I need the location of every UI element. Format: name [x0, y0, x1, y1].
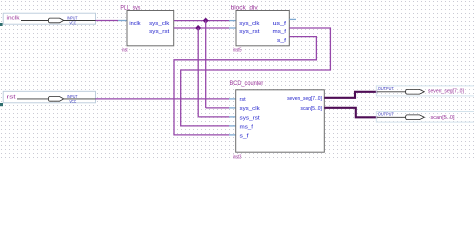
wire net sys_rst vertical drop — [197, 28, 199, 117]
stub PLL inclk — [118, 20, 127, 22]
svg-text:BCD_counter: BCD_counter — [230, 80, 264, 87]
wire net sys_clk vertical drop — [205, 21, 207, 108]
wire sys_rst into BCD — [198, 116, 229, 118]
svg-text:s_f: s_f — [240, 133, 250, 139]
svg-text:inst3: inst3 — [233, 154, 242, 160]
block BCD_counter U3 — [230, 80, 325, 160]
svg-text:inclk: inclk — [129, 21, 140, 27]
wire net ms_f — [181, 28, 331, 126]
svg-text:inst: inst — [122, 47, 128, 53]
svg-text:VCC: VCC — [69, 99, 76, 104]
svg-text:sys_rst: sys_rst — [239, 29, 260, 35]
wire net sys_rst horizontal — [174, 27, 229, 29]
wire sys_clk into BCD — [206, 107, 229, 109]
junction node sys_clk — [203, 18, 209, 24]
bus net seven_seg[7..0] — [324, 92, 377, 98]
svg-text:inst5: inst5 — [233, 47, 242, 53]
block PLL_sys U1 — [120, 4, 173, 53]
svg-text:scan[5..0]: scan[5..0] — [431, 115, 456, 121]
input pin inclk — [3, 13, 95, 26]
svg-text:OUTPUT: OUTPUT — [378, 112, 394, 117]
wire net s_f — [174, 37, 316, 135]
svg-text:sys_clk: sys_clk — [239, 21, 259, 27]
stub block_div us_f (dangling) — [289, 18, 296, 20]
svg-text:VCC: VCC — [69, 21, 76, 26]
svg-text:inclk: inclk — [7, 16, 20, 22]
stub BCD s_f — [229, 134, 236, 136]
stub BCD ms_f — [229, 125, 236, 127]
wire net sys_clk horizontal — [174, 20, 229, 22]
svg-text:sys_clk: sys_clk — [240, 106, 260, 112]
output pin seven_seg[7..0] — [376, 86, 474, 96]
svg-text:seven_seg[7..0]: seven_seg[7..0] — [287, 96, 322, 102]
svg-text:OUTPUT: OUTPUT — [378, 86, 394, 91]
input pin rst — [3, 91, 95, 104]
svg-text:seven_seg[7..0]: seven_seg[7..0] — [428, 89, 464, 95]
clip marker near rst — [0, 103, 3, 106]
svg-text:sys_rst: sys_rst — [149, 29, 170, 35]
wire inclk to PLL — [96, 20, 119, 22]
svg-text:us_f: us_f — [273, 21, 287, 27]
bus net scan[5..0] — [324, 108, 377, 118]
clip marker near inclk — [0, 23, 3, 26]
svg-text:scan[5..0]: scan[5..0] — [301, 106, 323, 112]
wire net rst — [96, 98, 230, 100]
svg-text:sys_rst: sys_rst — [240, 115, 261, 121]
svg-text:rst: rst — [240, 97, 247, 103]
block block_div U2 — [231, 5, 290, 54]
stub BCD sys_clk — [229, 107, 236, 109]
stub block_div sys_clk — [229, 20, 236, 22]
svg-text:ms_f: ms_f — [273, 29, 287, 35]
svg-text:s_f: s_f — [277, 38, 287, 44]
output pin scan[5..0] — [376, 112, 474, 123]
svg-text:ms_f: ms_f — [240, 124, 254, 130]
stub block_div sys_rst — [229, 27, 236, 29]
stub BCD rst — [229, 98, 236, 100]
junction node sys_rst — [195, 25, 201, 31]
svg-text:rst: rst — [7, 94, 17, 100]
stub BCD sys_rst — [229, 116, 236, 118]
svg-text:sys_clk: sys_clk — [149, 21, 169, 27]
